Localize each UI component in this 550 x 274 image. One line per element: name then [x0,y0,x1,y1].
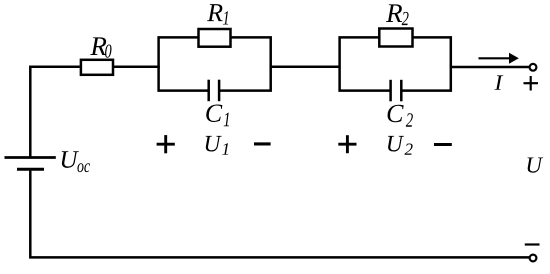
label I (current) [494,75,503,89]
wire: R0 to block1 left [113,66,160,69]
label C1 [206,104,229,126]
capacitor C1 right plate [218,80,221,102]
resistor R1 [199,29,231,47]
negative terminal (open circle) [530,255,537,262]
polarity plus at positive terminal [524,76,539,91]
current arrow I head [509,53,519,64]
battery Uoc short (negative) plate [17,168,44,171]
polarity plus of U1 [157,135,175,153]
capacitor C1 left plate [207,80,210,102]
resistor R2 [379,29,412,47]
label Uoc [62,151,90,172]
polarity minus of U1 [254,142,271,145]
capacitor C2 left plate [389,80,392,102]
wire: block2 to positive terminal [451,66,529,69]
wire: block1 upper-left corner (node A) [159,37,209,90]
polarity plus of U2 [338,135,356,153]
label R0 [90,37,111,57]
wire: top-left corner from battery up and right to R0 [30,67,80,158]
wire: block2 upper-right corner [402,37,451,90]
battery Uoc long (positive) plate [5,156,56,159]
wire: block1 to block2 (node B) [271,66,340,69]
resistor R0 [81,60,113,75]
positive terminal (open circle) [530,64,537,71]
polarity minus of U2 [434,143,452,146]
label U (terminal voltage) [528,157,544,172]
capacitor C2 right plate [400,80,403,102]
label U2 [388,136,413,155]
label U1 [206,136,229,155]
label C2 [388,105,413,127]
current arrow I shaft [479,57,512,59]
polarity minus at negative terminal [525,243,540,245]
wire: battery down, bottom wire to negative terminal [30,170,529,258]
label R2 [386,4,409,25]
label R1 [207,4,228,24]
wire: block2 upper-left corner [340,37,391,90]
wire: block1 upper-right corner [220,37,271,90]
